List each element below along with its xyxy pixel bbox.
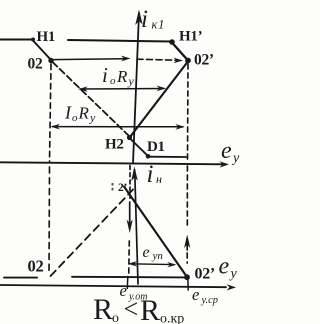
dashed vertical below O2 (top part) — [50, 64, 52, 162]
dashed characteristic O2 to H2 — [53, 62, 129, 136]
axis label i_n — [147, 161, 163, 188]
tick below O2' — [187, 277, 189, 290]
svg-text:02: 02 — [28, 257, 44, 276]
dimension line between O2 and O2' verticals — [51, 124, 185, 130]
point H2 — [127, 135, 132, 140]
svg-text:02’: 02’ — [194, 52, 214, 69]
lower branch right segment — [72, 276, 185, 279]
e_yp dimension arrow — [128, 261, 177, 267]
top saturation line left of H1 — [0, 39, 33, 41]
svg-text:02: 02 — [28, 56, 43, 73]
svg-text:i: i — [102, 63, 108, 87]
solid characteristic O2' to H2 — [130, 62, 188, 137]
dashed vertical below O2 (bottom part) — [48, 167, 51, 274]
release line with down arrow — [127, 166, 133, 277]
svg-text:y: y — [128, 74, 135, 88]
point H1' — [169, 39, 175, 45]
svg-text:уп: уп — [152, 250, 164, 262]
dashed arrow from axis to O2' — [137, 58, 183, 64]
lower branch left segment — [4, 277, 37, 279]
label e_y.ot — [120, 281, 148, 303]
svg-text:о: о — [112, 311, 119, 324]
point D1 — [146, 154, 151, 159]
svg-text:I: I — [64, 103, 72, 123]
svg-text:H2: H2 — [105, 137, 124, 153]
segment D1 to right — [149, 156, 186, 158]
segment H2 to D1 — [130, 139, 148, 157]
segment H1' to O2' — [172, 42, 189, 61]
label I0Ry (upper) — [102, 63, 135, 88]
svg-text:e: e — [219, 254, 230, 280]
point O2' (bottom) — [184, 274, 190, 280]
svg-text:o: o — [72, 112, 78, 124]
faded label H2' — [112, 182, 127, 194]
svg-text:о.кр: о.кр — [160, 312, 184, 324]
svg-text:i: i — [141, 6, 148, 33]
label e_y.cp — [192, 285, 218, 306]
svg-text:R: R — [140, 294, 160, 324]
point H1 — [31, 38, 35, 42]
svg-text:R: R — [93, 293, 113, 324]
svg-text:к1: к1 — [152, 18, 166, 32]
svg-text:02’: 02’ — [195, 266, 215, 283]
svg-text:H1’: H1’ — [179, 29, 202, 45]
bottom horizontal axis e_y — [0, 284, 236, 290]
svg-text:H1: H1 — [37, 29, 56, 45]
svg-text:н: н — [156, 172, 162, 186]
axis label i_k1 — [141, 6, 165, 33]
top vertical axis i_k1 — [133, 10, 143, 164]
axis label e_y (top right) — [221, 138, 240, 166]
top horizontal axis e_y — [0, 161, 229, 167]
svg-text:y: y — [89, 111, 96, 125]
svg-text:e: e — [221, 138, 232, 164]
svg-text:R: R — [78, 104, 90, 123]
svg-text:<: < — [124, 295, 139, 324]
dashed rising diagonal O2 to axis (bottom) — [51, 190, 134, 277]
top saturation line H1 to H1' — [68, 40, 171, 42]
axis label e_y (bottom right) — [219, 254, 238, 282]
svg-text:R: R — [116, 67, 128, 86]
tick of release line crossing axis — [126, 277, 129, 289]
svg-text:y: y — [231, 151, 240, 166]
double arrow between characteristics — [78, 86, 166, 92]
point O2 (top) — [48, 58, 53, 63]
label I0Ry (lower) — [64, 103, 96, 125]
svg-text:D1: D1 — [147, 139, 165, 155]
svg-text:y: y — [229, 267, 238, 282]
arrow I0Ry from O2 to axis — [54, 56, 131, 62]
solid falling diagonal to O2' (bottom) — [124, 187, 187, 278]
svg-text:у.ср: у.ср — [201, 295, 219, 306]
bottom vertical axis i_n — [131, 167, 138, 285]
svg-text:e: e — [143, 244, 150, 261]
caption R0 < R0.kp — [93, 293, 184, 324]
point O2' (top) — [185, 58, 191, 64]
svg-text:e: e — [192, 285, 199, 304]
operate line with up arrow (dashed vertical under O2') — [184, 166, 190, 263]
svg-text:i: i — [147, 161, 154, 188]
segment H1 to O2 — [33, 41, 51, 61]
svg-text:o: o — [110, 75, 116, 87]
label e_yp — [143, 244, 164, 262]
dashed vertical below O2' (top part) — [187, 64, 190, 160]
